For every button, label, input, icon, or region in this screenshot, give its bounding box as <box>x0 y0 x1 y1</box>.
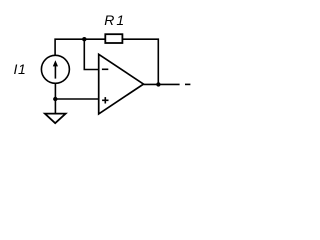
svg-text:R1: R1 <box>104 12 126 28</box>
op-amp U1 <box>99 54 144 114</box>
node junction at non-inverting input <box>53 97 57 101</box>
node output junction <box>156 82 160 86</box>
wire op-amp output <box>144 83 180 85</box>
node junction on top wire <box>82 37 86 41</box>
svg-text:I1: I1 <box>14 61 27 77</box>
current source I1 <box>41 55 69 83</box>
wire feedback down to inverting input <box>84 39 98 69</box>
wire output continuation dash <box>185 83 190 85</box>
wire from resistor right, down to output node <box>122 39 158 84</box>
wire from current source bottom to ground node <box>54 83 56 99</box>
resistor R1 <box>105 34 122 43</box>
ground <box>45 99 66 123</box>
wire to non-inverting input <box>55 98 98 100</box>
wire top-left from current source top to resistor left <box>55 39 105 55</box>
